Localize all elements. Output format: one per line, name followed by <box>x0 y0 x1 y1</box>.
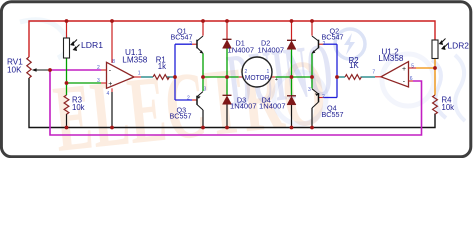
svg-text:7: 7 <box>372 69 375 75</box>
potentiometer RV1 <box>7 57 50 78</box>
wire: D2 bottom green <box>291 49 293 77</box>
op-amp U1.1 <box>97 48 148 97</box>
wire: Q2 emitter to node <box>311 53 313 77</box>
diode D4 <box>259 95 296 110</box>
wire: motor left green <box>203 76 239 78</box>
wire: base node to R2 teal <box>337 76 345 78</box>
wire: base link left blue <box>174 44 176 100</box>
svg-text:1: 1 <box>138 70 141 76</box>
wire: Q1 emitter to node <box>202 53 204 77</box>
junction Q2 collector rail <box>310 19 314 23</box>
junction R2 to Q2-Q4 bases <box>335 75 339 79</box>
wire: orange to U1.2 pin5 <box>416 67 435 69</box>
junction Q1-Q3 emitters motor left node <box>201 75 205 79</box>
svg-text:+: + <box>108 81 112 88</box>
junction Q4 collector ground <box>310 126 314 130</box>
wire: U1.1 pin4 stub <box>111 88 113 92</box>
svg-text:6: 6 <box>410 76 413 82</box>
svg-text:2: 2 <box>245 69 248 75</box>
svg-text:2: 2 <box>97 65 100 71</box>
wire: green to U1.1 pin3 <box>67 82 102 84</box>
wire: Q4 collector black <box>311 108 313 128</box>
wire: U1.1 output teal <box>141 76 153 78</box>
wire: Q3 emitter to node <box>202 77 204 91</box>
watermark <box>20 20 465 172</box>
diode D2 <box>258 39 297 55</box>
wire: R3 bottom black <box>66 114 68 128</box>
LDR LDR2 <box>432 39 469 59</box>
wire: D3 top green <box>226 77 228 95</box>
wire: Q4 emitter to node <box>311 77 313 89</box>
transistor Q1 <box>171 26 204 53</box>
svg-text:3: 3 <box>97 78 100 84</box>
junction R3 ground <box>65 126 69 130</box>
wire: D4 top green <box>291 77 293 96</box>
wire: Q2 collector red <box>311 21 313 36</box>
wire: U1.1 pin4 to ground black <box>111 92 113 128</box>
diode D1 <box>223 39 255 55</box>
junction Q3 collector ground <box>201 126 205 130</box>
svg-text:2: 2 <box>322 94 325 100</box>
junction LDR1-R3 divider to U1.1 pin3 <box>65 81 69 85</box>
junction D3 ground <box>225 126 229 130</box>
junction D2 rail <box>290 19 294 23</box>
wire: Q1 base blue <box>175 43 192 45</box>
svg-text:LM358: LM358 <box>122 55 147 64</box>
wire: purple feedback loop (RV1 wiper to U1.2 pin6 and U1.1 pin2) <box>50 70 422 135</box>
wire: D4 bottom black <box>291 105 293 128</box>
junction R1 to Q1-Q3 bases <box>173 75 177 79</box>
wire: U1.1 pin8 red <box>111 21 113 63</box>
svg-text:4: 4 <box>107 91 110 97</box>
svg-text:1K: 1K <box>349 61 359 70</box>
junction U1.1 pin4 ground <box>110 126 114 130</box>
svg-text:1N4007: 1N4007 <box>230 102 257 111</box>
wire: LDR1 top red <box>66 21 68 38</box>
junction D2-D4 motor right node <box>290 75 294 79</box>
wire: LDR2 to R4 orange column <box>434 59 436 96</box>
motor M1 <box>239 57 278 87</box>
svg-text:1N4007: 1N4007 <box>258 46 285 55</box>
svg-text:1N4007: 1N4007 <box>228 46 255 55</box>
wire: R2 to U1.2 output teal <box>361 76 376 78</box>
svg-text:LDR1: LDR1 <box>81 40 103 50</box>
wire: Q2 base blue <box>324 43 338 45</box>
transistor Q2 <box>312 26 344 53</box>
junction U1.1 pin8 rail <box>110 19 114 23</box>
svg-text:BC557: BC557 <box>170 112 192 121</box>
wire: ground rail (black) <box>29 78 435 128</box>
wire: D1 top red <box>226 21 228 39</box>
resistor R3 <box>64 95 85 114</box>
card frame <box>1 2 470 157</box>
LDR LDR1 <box>64 38 104 58</box>
resistor R1 <box>153 56 169 80</box>
svg-text:10k: 10k <box>72 103 85 112</box>
resistor R4 <box>433 95 455 114</box>
junction LDR2-R4 divider to U1.2 pin5 <box>433 66 437 70</box>
wire: R1 to base node teal <box>167 76 176 78</box>
svg-text:LDR2: LDR2 <box>448 41 470 51</box>
transistor Q4 <box>308 87 343 119</box>
junction D1-D3 motor left node <box>225 75 229 79</box>
wire: +V top rail <box>29 21 435 57</box>
junction D4 ground <box>290 126 294 130</box>
wire: D2 top red <box>291 21 293 40</box>
wire: Q3 base blue <box>175 99 192 101</box>
junction RV1 wiper purple net <box>48 68 52 72</box>
transistor Q3 <box>170 87 207 121</box>
svg-text:1k: 1k <box>158 62 166 71</box>
svg-text:2: 2 <box>323 41 326 47</box>
wire: D1 bottom green <box>226 48 228 77</box>
junction Q2-Q4 emitters motor right node <box>310 75 314 79</box>
diode D3 <box>223 95 257 110</box>
wire: motor right green <box>275 76 312 78</box>
resistor R2 <box>345 56 361 79</box>
svg-text:2: 2 <box>187 95 190 101</box>
svg-text:3: 3 <box>308 87 311 93</box>
svg-text:BC557: BC557 <box>322 110 344 119</box>
svg-text:10k: 10k <box>442 103 455 112</box>
svg-text:1: 1 <box>267 69 270 75</box>
svg-text:3: 3 <box>204 87 207 93</box>
wire: Q3 collector black <box>202 110 204 128</box>
svg-text:+: + <box>402 66 406 73</box>
wire: Q4 base blue <box>324 97 338 99</box>
junction Q1 collector rail <box>201 19 205 23</box>
svg-text:5: 5 <box>411 63 414 69</box>
svg-text:10K: 10K <box>7 66 22 75</box>
svg-text:2: 2 <box>189 41 192 47</box>
op-amp U1.2 <box>372 47 416 87</box>
wire: base link right blue <box>336 44 338 97</box>
svg-text:+: + <box>275 77 278 83</box>
junction LDR1 top rail <box>65 19 69 23</box>
svg-text:LM358: LM358 <box>378 54 403 63</box>
svg-text:8: 8 <box>112 59 115 65</box>
wire: LDR1 divider green column <box>66 58 68 95</box>
junction D1 rail <box>225 19 229 23</box>
wire: Q1 collector red <box>202 21 204 36</box>
svg-text:1N4007: 1N4007 <box>259 102 286 111</box>
wire: D3 bottom black <box>226 104 228 127</box>
